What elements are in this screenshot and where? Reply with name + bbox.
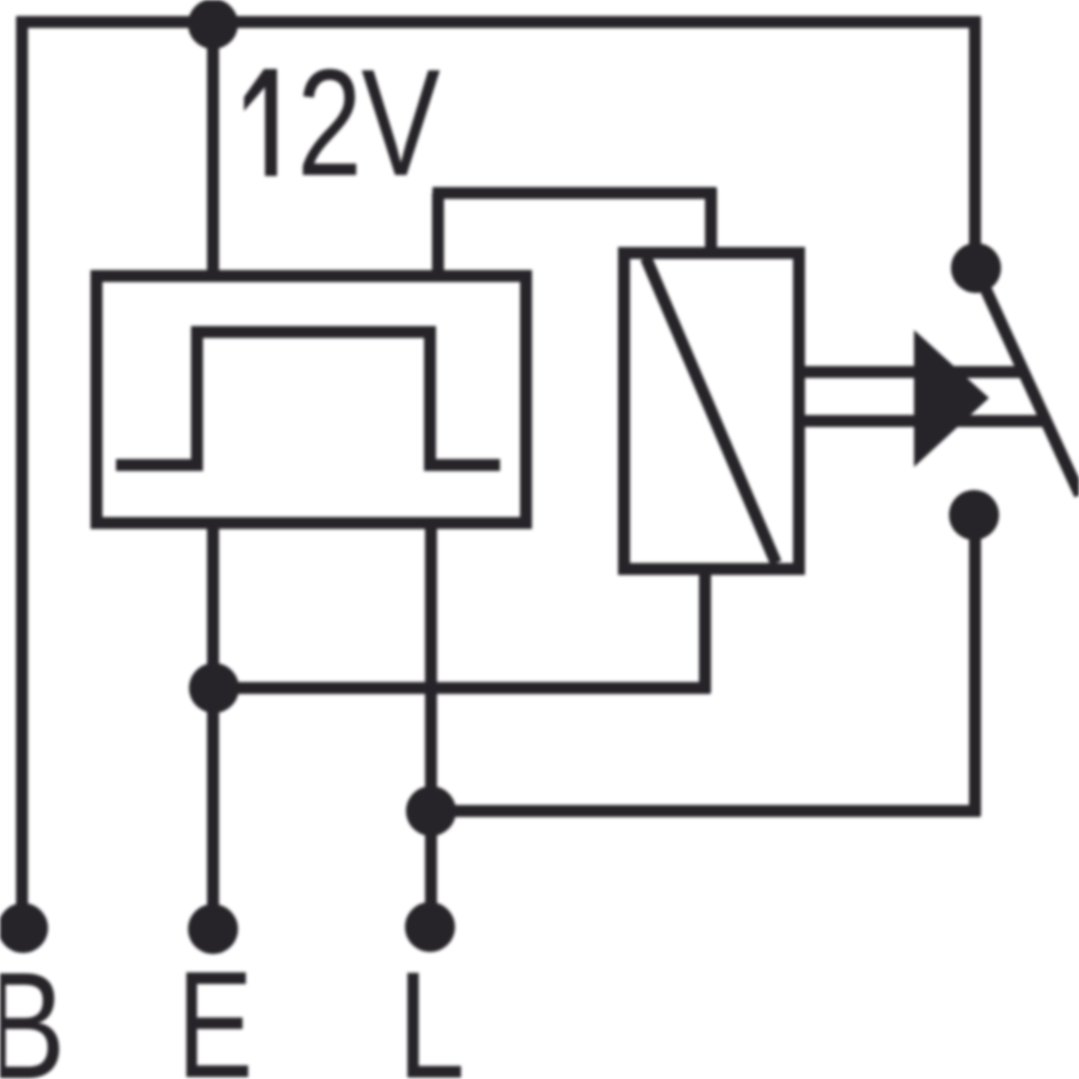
svg-text:V: V: [361, 38, 440, 207]
wire: flasher output up-over to relay coil (vertical rise): [432, 193, 444, 276]
actuator linkage upper line (relay to contact): [803, 366, 1022, 378]
junction dot: node E branch: [189, 663, 239, 713]
svg-text:L: L: [397, 941, 465, 1079]
wire: E junction to relay coil bottom (horizontal): [213, 682, 711, 694]
wire: left vertical to terminal B: [16, 17, 28, 929]
junction dot: 12V tap on top bus: [188, 0, 238, 49]
switch S1 upper contact dot: [951, 243, 1001, 293]
switch S1 movable lever: [976, 268, 1079, 495]
terminal dot L: [405, 902, 455, 952]
wire: flasher output to relay coil (horizontal run): [433, 187, 717, 199]
wire: supply drop to flasher unit: [207, 22, 219, 276]
flasher unit U1: pulse generator box: [97, 276, 527, 523]
svg-text:2: 2: [297, 37, 362, 207]
wire: relay coil bottom drop: [699, 569, 711, 693]
junction dot: node L branch: [406, 786, 456, 836]
actuator arrowhead pushing switch lever: [914, 330, 989, 467]
relay coil K1 diagonal: [646, 258, 776, 563]
wire: drop into relay coil top: [705, 189, 717, 254]
svg-text:B: B: [0, 941, 65, 1079]
relay coil K1: box with diagonal stroke: [624, 253, 799, 569]
wire: terminal E branch (flasher bottom to terminal E): [207, 523, 219, 929]
wire: L junction to switch lower contact (horizontal): [431, 805, 981, 817]
wire: top 12V supply bus: [17, 16, 981, 28]
svg-text:E: E: [177, 940, 253, 1079]
wire: terminal L branch (flasher bottom to terminal L): [425, 523, 437, 927]
switch S1 lower contact dot: [949, 490, 999, 540]
wire: top bus down to switch upper contact: [969, 17, 981, 269]
wire: switch lower contact down-leg: [969, 515, 981, 816]
pulse waveform symbol inside flasher unit U1: [116, 332, 500, 465]
actuator linkage lower line (relay to contact): [803, 415, 1044, 427]
label: 12V supply, digit 1: [244, 69, 277, 176]
terminal dot E: [188, 904, 238, 954]
terminal dot B: [0, 903, 48, 953]
